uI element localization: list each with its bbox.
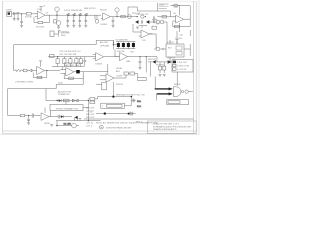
wire right mid [160, 62, 164, 73]
op-amp U6 left input stage [14, 69, 37, 72]
diode D5 [135, 17, 138, 24]
svg-text:REV 2: REV 2 [136, 122, 143, 124]
diode ladder D1-D4 [67, 13, 87, 16]
lower mid bus2 [96, 113, 132, 115]
svg-text:R26 R27: R26 R27 [148, 59, 157, 61]
wire from box [124, 97, 131, 106]
part circle lower [56, 121, 79, 128]
svg-text:COMP: COMP [116, 76, 123, 78]
wire dip to U4 [115, 49, 119, 56]
microphone M1 [55, 7, 59, 15]
capacitor C2 [15, 13, 19, 17]
wire U2 output [110, 16, 138, 18]
junction cross [113, 40, 117, 49]
long vertical right mid [149, 62, 151, 77]
wire mid left route [56, 75, 83, 89]
trimmer VR2 [127, 15, 131, 19]
junction lower bus [88, 120, 89, 121]
capacitor C8 [112, 17, 115, 26]
shunt comp 2 [63, 57, 66, 67]
wire right area [189, 30, 191, 36]
svg-text:C10 R12 C11: C10 R12 C11 [136, 14, 149, 16]
svg-text:.022 .022 33K 33K: .022 .022 33K 33K [59, 54, 77, 56]
text smudges [6, 5, 193, 132]
wire U3 feedback [173, 19, 190, 26]
svg-text:R30 10K: R30 10K [86, 114, 95, 116]
svg-text:DRAWN W.SMITH APPD: DRAWN W.SMITH APPD [153, 128, 177, 131]
ground (Q1) [57, 27, 60, 29]
svg-text:LEVEL: LEVEL [116, 68, 123, 70]
svg-text:RLY: RLY [168, 48, 173, 50]
resistor R9 [121, 15, 125, 17]
ground (terminal) [159, 75, 166, 77]
resistor R2 [38, 21, 43, 23]
wire U6 feedback [33, 71, 47, 78]
wire U5 to U4 [104, 56, 120, 58]
shunt comp 1 [56, 57, 59, 67]
junction dots ladder [67, 15, 86, 16]
wire U8 output [49, 115, 72, 119]
power stub U3 [179, 6, 181, 16]
op-amp U4 [120, 53, 128, 61]
note circle symbol [100, 125, 104, 129]
svg-text:ADJ: ADJ [116, 70, 120, 73]
diode D6 [145, 17, 149, 24]
shunt comp 3 [69, 57, 72, 67]
lower filter ground rail [52, 66, 84, 68]
connector J1 [7, 12, 14, 17]
gate symbol [173, 87, 193, 97]
junction mic node [56, 15, 57, 16]
svg-text:100K: 100K [58, 83, 63, 85]
wire bottom right route [56, 97, 100, 121]
capacitor C15 [139, 57, 142, 68]
wire U11 output [149, 34, 156, 49]
component small box A [152, 26, 156, 29]
shunt branch 3 [78, 15, 81, 27]
wire U1 output bus [45, 14, 101, 16]
wire comparator left [83, 64, 108, 72]
power label block [157, 3, 168, 11]
capacitor C1 [14, 12, 15, 16]
capacitor C20 [27, 116, 30, 123]
dark diode row component [148, 60, 168, 63]
ground (bridge) [136, 27, 139, 29]
wire U7 feedback [64, 72, 83, 79]
resistor R1 [26, 13, 31, 15]
shunt branch 1 [66, 15, 69, 27]
junction right bottom net [88, 100, 89, 101]
svg-text:DENOTES PANEL MOUNT: DENOTES PANEL MOUNT [106, 126, 132, 129]
svg-text:R29 47K: R29 47K [86, 108, 95, 110]
svg-text:ALL SW: ALL SW [100, 41, 108, 44]
component box C [50, 54, 54, 57]
wire comparator out [114, 75, 126, 78]
ground (C1) [13, 16, 16, 20]
resistor R12 [162, 16, 167, 18]
svg-text:R16 1M: R16 1M [117, 51, 125, 53]
resistor R19 [69, 77, 74, 79]
lower filter bus [48, 56, 96, 58]
ground lower mid [50, 124, 53, 126]
svg-text:R24 R25: R24 R25 [156, 64, 165, 66]
svg-text:PHONO PREAMP PCB: PHONO PREAMP PCB [56, 107, 78, 110]
svg-text:R31 22K: R31 22K [86, 117, 95, 119]
test point TP1 [115, 8, 119, 17]
wire U4 output [128, 57, 158, 62]
svg-text:SEE NOTE 2: SEE NOTE 2 [84, 8, 97, 10]
junction bottom net [57, 100, 58, 101]
wire gate left verticals [155, 77, 156, 101]
svg-text:LM358: LM358 [96, 64, 103, 66]
svg-text:R23 5K: R23 5K [116, 84, 124, 86]
wire upper bottom net [46, 89, 88, 117]
diode D9 dark [74, 70, 83, 73]
svg-text:C21 10u: C21 10u [86, 111, 95, 113]
power stub U1 [39, 7, 42, 12]
svg-text:DRIVE: DRIVE [174, 84, 181, 86]
svg-text:SENS ADJ R23 SET FULL CW: SENS ADJ R23 SET FULL CW [116, 94, 145, 97]
op-amp U11 [133, 24, 149, 38]
svg-text:SCHEMATIC AUDIO PROCESSOR U: SCHEMATIC AUDIO PROCESSOR UNIT [153, 126, 192, 129]
wire U3 down [179, 23, 181, 32]
IC box U9 [166, 40, 190, 62]
op-amp U5 [93, 53, 104, 61]
junction D bridge [137, 16, 146, 17]
wires terminal area [176, 72, 178, 86]
svg-text:SCALE NOTED SHT 1 OF 1: SCALE NOTED SHT 1 OF 1 [153, 123, 180, 126]
ground (C3) [20, 25, 23, 27]
svg-text:R2 100K: R2 100K [36, 26, 45, 28]
wire to top right [128, 7, 170, 17]
pot box [96, 82, 106, 90]
junction lower filter [57, 56, 58, 57]
ground (C20) [27, 123, 30, 125]
svg-text:N.O.: N.O. [137, 106, 142, 108]
power tick lower [79, 119, 82, 121]
svg-text:U4B: U4B [126, 61, 131, 63]
junction blob 2 [131, 96, 133, 98]
component box B (mid left) [50, 31, 60, 37]
capacitor C16 [175, 31, 178, 44]
dark signal arrow 2 [157, 92, 173, 95]
wire bus into U3 [110, 16, 175, 18]
svg-text:R8 10K: R8 10K [100, 9, 108, 11]
svg-text:ADJUST FOR: ADJUST FOR [58, 91, 72, 94]
capacitor C10 [172, 4, 180, 7]
resistor R22 [63, 99, 69, 102]
separator line above notes [84, 118, 194, 120]
terminal block TB1 [168, 60, 193, 72]
svg-text:3 +12V IN: 3 +12V IN [177, 69, 187, 71]
wire top right [170, 6, 190, 20]
shunt comp 5 [79, 57, 82, 67]
junction input [21, 13, 22, 14]
junction U6 [46, 70, 47, 71]
wire input net [12, 14, 38, 22]
svg-text:MATCHED PAIR: MATCHED PAIR [64, 64, 80, 67]
shunt branch 4 [84, 15, 87, 27]
op-amp U7 [60, 67, 74, 76]
wire U1 feedback [34, 15, 50, 22]
border frame [3, 1, 197, 134]
shunt branch 2 [72, 15, 75, 27]
op-amp U6 [37, 61, 45, 75]
vertical mid bottom [112, 82, 114, 97]
junction lower rc [28, 115, 29, 116]
big routing wire lower left [8, 89, 57, 116]
component pair [90, 98, 95, 104]
svg-text:LOW PASS 2.5KHZ: LOW PASS 2.5KHZ [15, 80, 34, 83]
svg-text:J1 MIC: J1 MIC [6, 10, 13, 12]
svg-text:SYMMETRY: SYMMETRY [58, 94, 70, 96]
comparator U10 [100, 70, 114, 82]
small parts row right of bridge [149, 21, 167, 44]
parts right of box [131, 99, 135, 103]
svg-text:LM358: LM358 [101, 24, 108, 26]
svg-text:S1 GAIN SEL: S1 GAIN SEL [116, 39, 130, 42]
svg-text:C22 .01: C22 .01 [86, 122, 94, 124]
capacitor C9 [152, 16, 157, 23]
svg-text:K1A: K1A [137, 100, 142, 103]
long box with label [101, 103, 125, 108]
op-amp U8 [41, 108, 49, 121]
svg-text:1 SIG OUT: 1 SIG OUT [177, 62, 188, 64]
svg-text:LM741: LM741 [44, 123, 51, 125]
component box D [159, 66, 162, 70]
svg-text:NOTE: ALL RESISTORS 1/4W 5: NOTE: ALL RESISTORS 1/4W 5% UNLESS OTHER… [96, 121, 158, 124]
dip switch S1 [116, 42, 135, 49]
junction dots U4 net [139, 56, 146, 57]
svg-text:R1 10K: R1 10K [25, 17, 33, 19]
svg-text:12V ZEN: 12V ZEN [61, 32, 70, 34]
svg-text:C12 C13 R20 R21 C14: C12 C13 R20 R21 C14 [59, 51, 81, 53]
svg-text:M1 LED: M1 LED [64, 123, 72, 125]
svg-text:U1A: U1A [38, 8, 43, 11]
svg-text:REG: REG [61, 35, 66, 37]
small comp boxes right of comparator [124, 72, 138, 78]
trimmer VR3 [154, 47, 166, 51]
shunt comp 4 [75, 57, 78, 67]
svg-text:K1 12V: K1 12V [167, 42, 174, 44]
title block [147, 121, 196, 133]
wire VR1 [95, 15, 97, 19]
box label lower [50, 105, 88, 111]
svg-text:+12V: +12V [159, 5, 165, 7]
capacitor C3 [20, 21, 23, 25]
transistor Q1 [53, 15, 60, 27]
resistor R18 [37, 76, 42, 78]
label box lower right [167, 100, 189, 105]
wire U3 output [184, 18, 191, 20]
ground (C15) [139, 68, 142, 70]
part right lower [130, 112, 136, 116]
wire U6 output [45, 70, 61, 72]
trimmer VR1 [95, 19, 99, 23]
op-amp U2 [101, 13, 110, 20]
capacitor C14 [83, 57, 86, 67]
junction blob 3 [104, 112, 106, 114]
svg-text:D1-D4 1N4148 SEL: D1-D4 1N4148 SEL [64, 10, 83, 12]
component box E [163, 66, 166, 70]
svg-text:2 GND COM: 2 GND COM [177, 65, 189, 67]
lower RC row [12, 113, 41, 117]
bridge mid bars [139, 20, 147, 28]
long routing wire left [14, 40, 114, 70]
ground (C8) [112, 25, 115, 27]
junction blob [112, 96, 114, 98]
bottom mid bus [98, 96, 132, 98]
resistor block right [138, 78, 147, 81]
meter circle [141, 15, 144, 18]
op-amp U1 [35, 11, 45, 19]
wire branch down [145, 57, 147, 73]
diode D11 [59, 99, 62, 102]
svg-text:OFF=MIN: OFF=MIN [100, 45, 110, 47]
junction gate [155, 88, 156, 89]
resistor R14 [174, 25, 179, 27]
svg-text:C23 .1: C23 .1 [86, 126, 93, 128]
svg-text:OUTPUT: OUTPUT [167, 57, 176, 59]
op-amp U3 [173, 15, 184, 23]
ground (C2) [17, 16, 20, 20]
dark signal arrow 1 [155, 87, 173, 90]
pot bowtie [72, 99, 78, 102]
diode D10 [75, 116, 78, 121]
